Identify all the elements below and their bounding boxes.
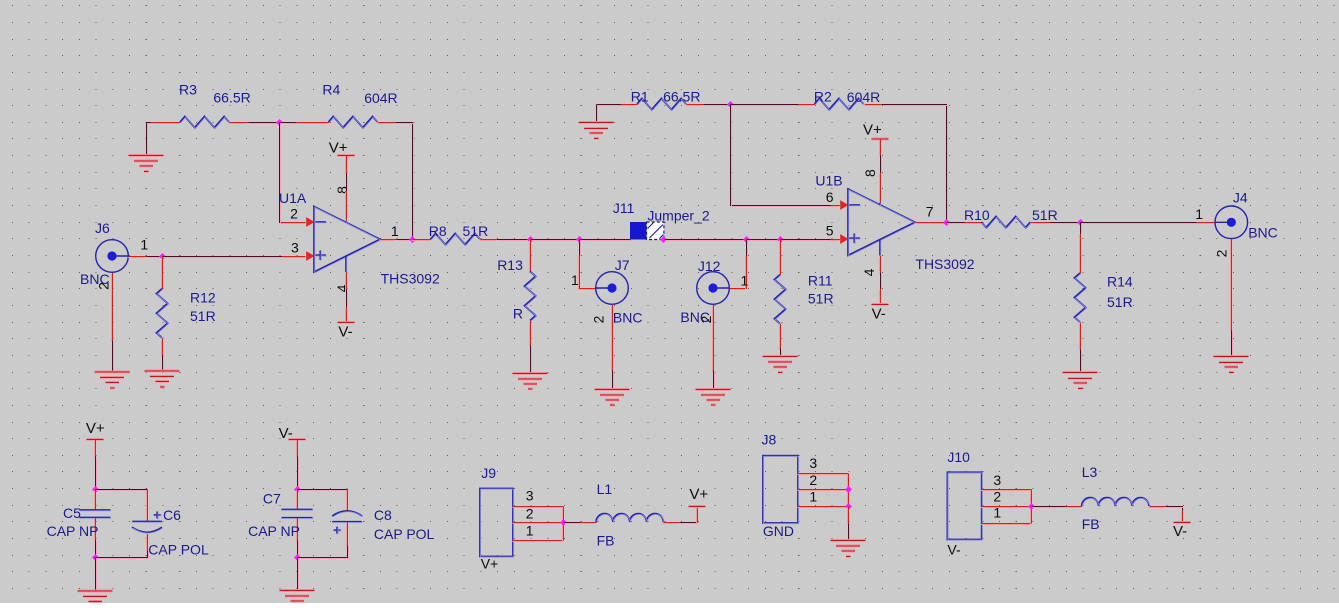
J10 pin 2 number <box>993 488 1001 504</box>
svg-text:R8: R8 <box>429 223 447 239</box>
svg-text:FB: FB <box>597 532 615 548</box>
wire <box>396 123 414 241</box>
junction <box>92 554 99 561</box>
wire <box>298 546 349 559</box>
svg-text:51R: 51R <box>463 223 489 239</box>
C8 value CAP POL <box>374 526 435 542</box>
U1A pin 2 number <box>290 206 298 222</box>
wire <box>747 240 782 241</box>
junction <box>943 219 950 226</box>
svg-text:THS3092: THS3092 <box>915 256 974 272</box>
svg-text:66.5R: 66.5R <box>213 89 250 105</box>
wire <box>580 240 632 241</box>
J12 value BNC <box>680 309 710 325</box>
junction <box>1077 219 1084 226</box>
wire <box>531 346 532 375</box>
wire <box>849 524 850 542</box>
U1B pin 6 <box>830 206 841 207</box>
wire <box>96 457 97 491</box>
svg-text:THS3092: THS3092 <box>381 271 440 287</box>
svg-text:1: 1 <box>526 523 534 539</box>
ground <box>280 590 315 608</box>
U1B pin 5 number <box>826 223 834 239</box>
junction <box>294 554 301 561</box>
U1A pin 1 <box>380 240 397 241</box>
V- label <box>1173 523 1187 540</box>
junction <box>159 253 166 260</box>
resistor R2 <box>798 98 883 110</box>
capacitor C7 <box>282 490 314 542</box>
svg-text:V+: V+ <box>481 556 499 572</box>
C6 designator <box>163 507 181 523</box>
V- label <box>872 306 886 323</box>
power V+ (U1B pin 8) <box>871 138 888 157</box>
wire <box>747 240 748 257</box>
resistor R11 <box>774 240 786 350</box>
svg-text:7: 7 <box>926 204 934 220</box>
svg-text:1: 1 <box>140 236 148 252</box>
wire <box>1050 223 1082 224</box>
R11 designator <box>808 272 833 288</box>
J4 pin 2 <box>1231 239 1232 331</box>
svg-text:1: 1 <box>1195 206 1203 222</box>
svg-text:R10: R10 <box>964 207 990 223</box>
power V- (L3 output) <box>1173 511 1190 524</box>
junction <box>777 236 784 243</box>
connector J8 (header) <box>763 456 799 524</box>
V+ label <box>86 420 105 437</box>
J8 pins <box>798 474 849 508</box>
U1A pin 2 <box>281 223 306 224</box>
power V- (U1A pin 4) <box>337 307 354 324</box>
wire <box>1166 507 1183 512</box>
ground <box>95 371 130 389</box>
J12 pin 1 <box>729 256 747 290</box>
U1B pin 6 number <box>826 189 834 205</box>
R13 value R <box>513 306 523 322</box>
J9 pins <box>513 507 564 542</box>
J7 value BNC <box>613 309 643 325</box>
U1A pin 4 number <box>334 284 350 292</box>
junction <box>409 236 416 243</box>
wire <box>96 551 149 559</box>
capacitor C8 <box>332 490 363 547</box>
J9 pin 1 number <box>526 523 534 539</box>
svg-text:C7: C7 <box>263 491 281 507</box>
L1 designator <box>597 481 613 497</box>
wire <box>163 356 164 373</box>
wire <box>665 240 748 241</box>
J7 pin 2 number <box>590 315 606 323</box>
wire <box>147 257 164 258</box>
resistor R13 <box>524 240 536 347</box>
power V+ (U1A pin 8) <box>337 155 354 175</box>
connector J4 (BNC) <box>1215 206 1248 239</box>
junction <box>560 519 567 526</box>
wire <box>714 371 715 391</box>
R13 designator <box>497 257 523 273</box>
wire <box>597 105 622 106</box>
svg-text:V-: V- <box>279 425 293 442</box>
wire <box>397 240 414 241</box>
ground <box>579 122 614 140</box>
svg-text:V+: V+ <box>329 140 348 157</box>
resistor R10 <box>964 216 1050 228</box>
power V- (decoupling) <box>288 438 305 457</box>
L1 value FB <box>597 532 615 548</box>
svg-text:J6: J6 <box>95 220 110 236</box>
U1B pin 7 number <box>926 204 934 220</box>
R1 value 66.5R <box>663 88 700 104</box>
inductor L3 (ferrite bead) <box>1065 498 1167 508</box>
svg-text:51R: 51R <box>808 290 834 306</box>
junction <box>660 236 667 243</box>
wire <box>531 240 581 241</box>
svg-text:V-: V- <box>872 306 886 323</box>
svg-text:V-: V- <box>338 324 352 341</box>
svg-text:C5: C5 <box>63 505 81 521</box>
wire <box>113 341 114 374</box>
V- label <box>279 425 293 442</box>
svg-text:V-: V- <box>1173 523 1187 540</box>
J4 pin 1 <box>1195 223 1216 224</box>
R3 value 66.5R <box>213 89 250 105</box>
svg-text:V+: V+ <box>86 420 105 437</box>
svg-text:J10: J10 <box>947 449 970 465</box>
L3 value FB <box>1082 516 1100 532</box>
ground <box>145 370 180 388</box>
R2 designator <box>814 88 832 104</box>
svg-text:2: 2 <box>698 315 714 323</box>
wire <box>249 123 281 124</box>
op-amp U1A <box>306 207 381 273</box>
svg-text:J11: J11 <box>613 200 635 216</box>
svg-text:1: 1 <box>809 489 817 505</box>
U1A pin 1 number <box>391 223 399 239</box>
wire <box>280 123 283 224</box>
svg-text:CAP POL: CAP POL <box>148 541 209 557</box>
V+ label <box>863 122 882 139</box>
J8 ground stem <box>848 507 849 525</box>
svg-text:3: 3 <box>809 455 817 471</box>
J6 pin 1 number <box>140 236 148 252</box>
junction <box>727 101 734 108</box>
C8 designator <box>374 507 392 523</box>
J6 pin 2 <box>112 273 113 342</box>
J10 pin 3 number <box>993 472 1001 488</box>
R4 value 604R <box>364 90 397 106</box>
R14 value 51R <box>1107 294 1133 310</box>
wire <box>347 174 348 193</box>
L3 designator <box>1082 464 1098 480</box>
connector J12 (BNC) <box>697 272 730 305</box>
junction <box>576 236 583 243</box>
wire <box>298 457 299 491</box>
wire <box>881 273 882 290</box>
ground <box>763 356 798 374</box>
svg-text:CAP POL: CAP POL <box>374 526 435 542</box>
svg-text:R4: R4 <box>322 81 340 97</box>
U1A value THS3092 <box>381 271 440 287</box>
connector J10 (header) <box>947 472 982 540</box>
svg-text:GND: GND <box>763 523 794 539</box>
J9 pin 3 number <box>526 488 534 504</box>
wire <box>96 558 97 592</box>
wire <box>298 558 299 592</box>
connector J7 (BNC) <box>596 272 629 305</box>
junction <box>743 236 750 243</box>
R8 designator <box>429 223 447 239</box>
wire <box>882 105 947 224</box>
U1A pin 8 <box>346 191 347 221</box>
svg-text:V+: V+ <box>863 122 882 139</box>
wire <box>1032 507 1067 508</box>
svg-text:2: 2 <box>96 282 112 290</box>
J4 designator <box>1233 190 1248 206</box>
svg-text:R3: R3 <box>179 81 197 97</box>
R3 designator <box>179 81 197 97</box>
svg-text:51R: 51R <box>1032 207 1058 223</box>
V+ label <box>689 486 708 503</box>
wire <box>731 105 832 207</box>
svg-text:3: 3 <box>291 240 299 256</box>
op-amp U1B <box>840 189 916 256</box>
svg-text:J12: J12 <box>698 258 721 274</box>
wire <box>347 290 348 308</box>
wire <box>704 105 732 106</box>
J4 pin 1 number <box>1195 206 1203 222</box>
U1B pin 4 <box>880 256 881 274</box>
svg-text:1: 1 <box>993 505 1001 521</box>
inductor L1 (ferrite bead) <box>579 514 680 524</box>
svg-text:5: 5 <box>826 223 834 239</box>
svg-text:J4: J4 <box>1233 190 1248 206</box>
wire <box>613 371 614 391</box>
svg-text:4: 4 <box>861 268 877 276</box>
J6 designator <box>95 220 110 236</box>
J10 net V- <box>947 541 961 557</box>
wire <box>680 523 698 524</box>
V- label <box>338 324 352 341</box>
svg-text:R: R <box>513 306 523 322</box>
ground <box>78 590 113 608</box>
svg-text:R1: R1 <box>631 88 649 104</box>
C5 designator <box>63 505 81 521</box>
svg-text:66.5R: 66.5R <box>663 88 700 104</box>
svg-text:J8: J8 <box>762 432 777 448</box>
J4 pin 2 number <box>1214 249 1230 257</box>
R2 value 604R <box>847 89 880 105</box>
U1A pin 3 number <box>291 240 299 256</box>
svg-text:L3: L3 <box>1082 464 1098 480</box>
R12 value 51R <box>190 308 216 324</box>
power V+ (L1 output) <box>688 506 705 524</box>
J8 net GND <box>763 523 794 539</box>
R11 value 51R <box>808 290 834 306</box>
ground <box>595 388 630 406</box>
wire <box>1232 331 1233 358</box>
R4 designator <box>322 81 340 97</box>
svg-text:1: 1 <box>391 223 399 239</box>
svg-text:1: 1 <box>571 272 579 288</box>
R10 value 51R <box>1032 207 1058 223</box>
C5 value CAP NP <box>47 523 99 539</box>
J8 pin 2 number <box>809 472 817 488</box>
svg-text:C8: C8 <box>374 507 392 523</box>
svg-text:6: 6 <box>826 189 834 205</box>
U1B pin 4 number <box>861 268 877 276</box>
svg-text:C6: C6 <box>163 507 181 523</box>
J10 designator <box>947 449 970 465</box>
svg-text:2: 2 <box>993 488 1001 504</box>
ground <box>831 540 866 558</box>
U1A pin 8 number <box>334 186 350 194</box>
wire <box>781 240 832 241</box>
svg-text:R12: R12 <box>190 290 216 306</box>
J11 value Jumper_2 <box>647 207 709 223</box>
V+ label <box>329 140 348 157</box>
U1A pin 4 <box>346 273 347 291</box>
J9 pin 2 number <box>526 506 534 522</box>
ground <box>129 155 164 173</box>
J8 designator <box>762 432 777 448</box>
junction <box>92 486 99 493</box>
U1A pin 3 <box>281 257 306 258</box>
svg-text:V+: V+ <box>689 486 708 503</box>
R12 designator <box>190 290 216 306</box>
R8 value 51R <box>463 223 489 239</box>
U1B pin 7 <box>915 223 947 224</box>
wire <box>731 105 800 106</box>
ground <box>1063 372 1098 390</box>
J7 pin 1 number <box>571 272 579 288</box>
wire <box>96 490 149 491</box>
svg-text:8: 8 <box>862 169 878 177</box>
resistor R4 <box>295 116 396 128</box>
junction <box>845 503 852 510</box>
svg-text:2: 2 <box>590 315 606 323</box>
U1A designator <box>279 190 307 206</box>
R10 designator <box>964 207 990 223</box>
svg-text:604R: 604R <box>364 90 397 106</box>
resistor R12 <box>156 257 168 357</box>
jumper J11 <box>630 222 664 240</box>
wire <box>298 490 349 491</box>
wire <box>147 123 154 124</box>
svg-text:604R: 604R <box>847 89 880 105</box>
wire <box>497 240 532 241</box>
wire <box>280 123 297 124</box>
junction <box>845 486 852 493</box>
svg-text:2: 2 <box>290 206 298 222</box>
svg-text:R11: R11 <box>808 272 833 288</box>
junction <box>1028 503 1035 510</box>
wire <box>147 123 148 157</box>
wire <box>881 156 882 174</box>
wire <box>1081 350 1082 374</box>
J9 net V+ <box>481 556 499 572</box>
svg-text:U1A: U1A <box>279 190 307 206</box>
connector J9 (header) <box>480 489 514 558</box>
svg-text:51R: 51R <box>190 308 216 324</box>
junction <box>276 119 283 126</box>
J10 pin 1 number <box>993 505 1001 521</box>
J12 pin 2 number <box>698 315 714 323</box>
power V- (U1B pin 4) <box>871 289 888 306</box>
wire <box>597 105 598 124</box>
ground <box>696 388 731 406</box>
junction <box>527 236 534 243</box>
U1B value THS3092 <box>915 256 974 272</box>
svg-text:J7: J7 <box>615 257 630 273</box>
wire <box>96 541 97 559</box>
svg-text:2: 2 <box>1214 249 1230 257</box>
J7 designator <box>615 257 630 273</box>
C6 value CAP POL <box>148 541 209 557</box>
J8 pin 1 number <box>809 489 817 505</box>
J12 pin 2 <box>713 305 714 372</box>
capacitor C5 <box>80 490 112 542</box>
svg-text:3: 3 <box>526 488 534 504</box>
ground <box>513 372 548 390</box>
svg-text:V-: V- <box>947 541 961 557</box>
U1B pin 8 <box>880 173 881 204</box>
J6 pin 2 number <box>96 282 112 290</box>
svg-text:3: 3 <box>993 472 1001 488</box>
svg-text:1: 1 <box>741 273 749 289</box>
svg-text:U1B: U1B <box>815 172 842 188</box>
U1B designator <box>815 172 842 188</box>
ground <box>1214 356 1249 374</box>
R1 designator <box>631 88 649 104</box>
J7 pin 1 <box>579 256 597 290</box>
resistor R3 <box>150 116 249 128</box>
connector J6 (BNC) <box>96 240 129 273</box>
J12 designator <box>698 258 721 274</box>
resistor R1 <box>620 98 704 110</box>
svg-text:2: 2 <box>526 506 534 522</box>
svg-text:R2: R2 <box>814 88 832 104</box>
svg-text:Jumper_2: Jumper_2 <box>647 207 709 223</box>
junction <box>294 486 301 493</box>
svg-text:BNC: BNC <box>1248 224 1278 240</box>
svg-text:R13: R13 <box>497 257 523 273</box>
svg-text:2: 2 <box>809 472 817 488</box>
wire <box>580 240 581 257</box>
wire <box>564 523 581 524</box>
J7 pin 2 <box>612 305 613 372</box>
wire <box>947 223 966 224</box>
wire <box>298 541 299 559</box>
svg-text:51R: 51R <box>1107 294 1133 310</box>
wire <box>1081 223 1082 235</box>
wire <box>1081 223 1197 224</box>
J11 designator <box>613 200 635 216</box>
U1B pin 8 number <box>862 169 878 177</box>
svg-text:CAP NP: CAP NP <box>248 523 300 539</box>
capacitor C6 <box>132 490 163 552</box>
J8 pin 3 number <box>809 455 817 471</box>
C7 designator <box>263 491 281 507</box>
svg-text:J9: J9 <box>481 465 496 481</box>
J9 designator <box>481 465 496 481</box>
J12 pin 1 number <box>741 273 749 289</box>
svg-text:L1: L1 <box>597 481 613 497</box>
J4 value BNC <box>1248 224 1278 240</box>
J6 pin 1 <box>128 257 147 258</box>
svg-text:BNC: BNC <box>613 309 643 325</box>
svg-text:FB: FB <box>1082 516 1100 532</box>
